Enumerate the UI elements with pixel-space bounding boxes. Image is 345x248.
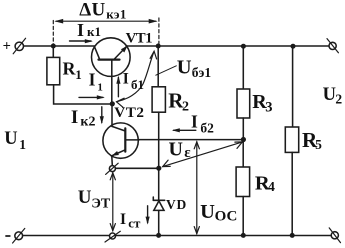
dashed measure line left — [52, 21, 54, 46]
svg-text:VD: VD — [166, 197, 187, 212]
terminal left bottom — [13, 228, 25, 243]
svg-text:ЭТ: ЭТ — [91, 197, 110, 212]
wire R5 bottom lead — [291, 152, 293, 235]
wire top rail left segment — [24, 45, 95, 47]
wire VT1 base lead — [111, 60, 113, 104]
wire VT2 emitter terminal to node — [115, 167, 158, 169]
svg-text:бэ1: бэ1 — [192, 65, 212, 80]
resistor R2 — [152, 87, 165, 112]
arrow I1 — [79, 95, 105, 99]
arrow Uet measure — [110, 173, 115, 231]
wire R3 bottom lead — [242, 118, 244, 140]
svg-text:VT1: VT1 — [126, 30, 153, 46]
svg-text:2: 2 — [182, 100, 189, 115]
wire R1 top lead — [52, 46, 54, 57]
svg-text:ΔU: ΔU — [79, 0, 105, 21]
svg-text:I: I — [77, 20, 84, 40]
svg-text:к1: к1 — [87, 24, 101, 39]
svg-text:VT2: VT2 — [114, 104, 144, 121]
svg-text:U: U — [200, 201, 215, 223]
terminal + input left top — [13, 38, 25, 54]
arrow Ue measure diagonal — [163, 142, 243, 167]
label minus — [6, 235, 10, 237]
transistor VT1 — [92, 38, 131, 77]
svg-text:б1: б1 — [131, 77, 144, 92]
svg-text:I: I — [71, 107, 78, 128]
node divider R3 R4 — [241, 137, 246, 142]
node R1 top — [51, 44, 56, 49]
wire R1 bottom lead — [54, 85, 113, 104]
wire bottom rail — [23, 235, 332, 237]
node VT1 base — [110, 101, 115, 106]
dashed measure line right — [158, 18, 160, 45]
svg-text:1: 1 — [97, 81, 103, 93]
wire R2 top lead — [157, 46, 159, 87]
arrow Ube1 curved measure — [117, 51, 157, 107]
svg-text:1: 1 — [19, 137, 26, 152]
svg-text:1: 1 — [75, 67, 82, 82]
arrow dUke1 span — [54, 19, 157, 24]
svg-text:ОС: ОС — [215, 208, 238, 224]
node R4 bottom — [241, 233, 246, 238]
wire top rail right segment — [127, 45, 329, 47]
arrow Uoc measure — [194, 142, 199, 234]
terminal right top — [327, 39, 338, 53]
node VD top — [156, 166, 161, 171]
wire middle (VT2 base to divider node) — [138, 139, 243, 141]
terminal right bottom — [329, 228, 340, 243]
transistor VT2 — [103, 123, 139, 166]
wire R3 top lead — [242, 46, 244, 89]
leader line Ube1 — [156, 66, 177, 75]
resistor R1 — [47, 57, 60, 84]
wire R4 top lead — [242, 140, 244, 167]
svg-text:U: U — [78, 187, 92, 208]
node R3 top — [241, 44, 246, 49]
svg-text:ст: ст — [128, 216, 141, 231]
diode VD (zener) — [153, 197, 164, 210]
svg-text:I: I — [120, 211, 126, 228]
svg-text:U: U — [169, 138, 183, 160]
arrow Ist — [146, 206, 150, 225]
arrow Ib2 — [172, 128, 196, 132]
node R2 top — [156, 44, 161, 49]
svg-text:I: I — [123, 70, 129, 87]
terminal bottom middle test point — [105, 231, 120, 242]
svg-text:4: 4 — [268, 180, 275, 195]
arrow Ib1 — [116, 76, 120, 97]
resistor R4 — [236, 167, 250, 197]
svg-text:2: 2 — [335, 91, 342, 106]
wire R2 bottom to VD to bottom rail — [158, 112, 160, 235]
svg-text:кэ1: кэ1 — [106, 7, 126, 22]
svg-text:I: I — [89, 69, 96, 89]
wire R4 bottom lead — [242, 197, 244, 236]
node R5 bottom — [290, 233, 295, 238]
terminal VT2 emitter test point — [106, 163, 119, 174]
svg-text:б2: б2 — [200, 120, 214, 135]
svg-text:+: + — [3, 38, 11, 54]
svg-text:U: U — [177, 56, 192, 78]
wire VT2 collector lead — [111, 104, 113, 126]
svg-text:к2: к2 — [80, 114, 95, 129]
svg-text:ε: ε — [184, 145, 191, 161]
svg-text:5: 5 — [315, 137, 322, 152]
resistor R3 — [237, 89, 250, 118]
wire R5 top lead — [292, 46, 294, 127]
arrow Ik2 — [100, 107, 104, 125]
node R5 top — [291, 44, 296, 49]
svg-text:3: 3 — [265, 100, 272, 116]
svg-text:U: U — [323, 85, 336, 105]
node VD bottom — [156, 233, 161, 238]
arrow Ik1 — [70, 39, 93, 43]
resistor R5 — [285, 127, 298, 152]
svg-text:U: U — [4, 129, 17, 149]
svg-text:I: I — [191, 112, 198, 132]
